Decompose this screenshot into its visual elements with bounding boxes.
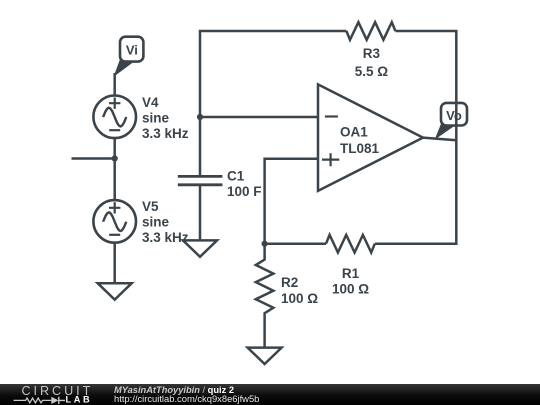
wire Vi label to V4 top (113, 73, 116, 97)
resistor R1 (326, 235, 375, 253)
svg-text:Vo: Vo (446, 108, 462, 123)
voltage source V4 (93, 96, 136, 139)
svg-text:Vi: Vi (126, 43, 138, 58)
svg-text:http://circuitlab.com/ckq9x8e6: http://circuitlab.com/ckq9x8e6jfw5b (114, 393, 259, 404)
capacitor C1 (178, 176, 223, 184)
ground under C1 (183, 240, 217, 256)
svg-text:LAB: LAB (66, 394, 93, 404)
wire stub left of V4/V5 junction (72, 157, 115, 160)
svg-text:V5: V5 (142, 199, 159, 214)
label V4 sine 3.3 kHz (142, 95, 189, 141)
ground under V5 (98, 283, 132, 299)
footer url (114, 393, 259, 404)
wire junction up to op-amp plus input (265, 159, 318, 244)
label R1 100 ohm (332, 266, 369, 297)
wire op-amp output stub (423, 138, 456, 141)
svg-text:sine: sine (142, 214, 170, 229)
label R2 100 ohm (281, 275, 318, 306)
wire C1 bottom to ground (199, 185, 202, 241)
label OA1 TL081 (340, 124, 380, 156)
wire R1 left to junction (265, 242, 326, 245)
wire left vertical and top-left segment (200, 31, 346, 176)
wire minus input from left vertical to op-amp (200, 116, 318, 119)
label R3 5.5 ohm (355, 46, 389, 79)
CircuitLab logo text CIRCUIT (22, 384, 94, 398)
svg-text:OA1: OA1 (340, 124, 368, 139)
svg-text:100 Ω: 100 Ω (281, 291, 318, 306)
label V5 sine 3.3 kHz (142, 199, 189, 245)
node junction R1/R2/plus-input (262, 241, 268, 247)
node label Vo (435, 103, 467, 140)
svg-text:3.3 kHz: 3.3 kHz (142, 126, 189, 141)
resistor R3 (346, 22, 395, 40)
node label Vi (114, 37, 144, 77)
wire V5 bottom to ground (113, 243, 116, 284)
wire V4 bottom to V5 top (113, 138, 116, 200)
CircuitLab logo text LAB (66, 394, 93, 404)
node junction minus-input/C1 (197, 114, 203, 120)
svg-text:C1: C1 (227, 168, 245, 183)
svg-text:R2: R2 (281, 275, 298, 290)
svg-text:R3: R3 (363, 46, 381, 61)
svg-text:100 Ω: 100 Ω (332, 282, 369, 297)
svg-text:V4: V4 (142, 95, 159, 110)
ground under R2 (248, 348, 282, 364)
footer title MYasinAtThoyyibin / quiz 2 (114, 385, 234, 395)
svg-text:100 F: 100 F (227, 184, 262, 199)
svg-text:5.5 Ω: 5.5 Ω (355, 64, 389, 79)
svg-text:R1: R1 (342, 266, 360, 281)
svg-text:sine: sine (142, 111, 170, 126)
CircuitLab logo mini circuit: wire, resistor, diode (14, 397, 66, 404)
footer bar background (0, 384, 540, 405)
node junction between V4 and V5 (112, 155, 118, 161)
svg-text:TL081: TL081 (340, 141, 380, 156)
op-amp OA1 triangle body (318, 84, 423, 190)
wire top-right, right vertical, bottom-right (375, 31, 457, 244)
svg-text:3.3 kHz: 3.3 kHz (142, 230, 189, 245)
resistor R2 with leads (256, 244, 274, 348)
voltage source V5 (93, 200, 136, 243)
label C1 100 F (227, 168, 262, 199)
